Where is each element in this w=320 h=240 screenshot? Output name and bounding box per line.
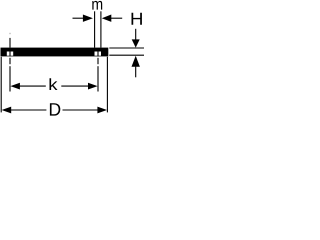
label H xyxy=(132,13,142,25)
D extension line right xyxy=(106,57,108,113)
k dimension line right segment xyxy=(61,85,88,87)
H extension line bottom xyxy=(109,54,144,56)
H arrow up tail xyxy=(135,67,137,78)
label m xyxy=(92,1,102,10)
gasket body (flange cross-section bar) xyxy=(1,48,109,57)
D dimension line left segment xyxy=(11,109,47,111)
centerline left hole (dash-dot) xyxy=(9,33,11,92)
bolt hole (left, section cut) xyxy=(7,52,13,56)
D arrow right (points right) xyxy=(97,107,107,114)
H arrow up (points up) xyxy=(132,56,140,67)
D extension line left xyxy=(0,57,2,113)
H arrow down tail xyxy=(135,29,137,40)
m extension line left xyxy=(94,11,96,47)
D dimension line right segment xyxy=(63,109,99,111)
background xyxy=(0,0,144,120)
k arrow right (points right) xyxy=(88,83,98,90)
centerline right hole (dash-dot) xyxy=(97,51,99,91)
m dimension line left tail xyxy=(73,17,84,19)
D arrow left (points left) xyxy=(2,107,12,114)
label D xyxy=(50,103,60,115)
k arrow left (points left) xyxy=(10,83,20,90)
H arrow down (points down) xyxy=(132,39,140,47)
bolt hole (right, section cut) xyxy=(95,52,102,56)
m dimension line right tail xyxy=(111,17,122,19)
k dimension line left segment xyxy=(19,85,45,87)
m arrow left (points right) xyxy=(83,15,93,22)
m arrow right (points left) xyxy=(102,15,112,22)
m extension line right xyxy=(100,11,102,47)
label k xyxy=(49,78,57,90)
H extension line top xyxy=(109,47,144,49)
